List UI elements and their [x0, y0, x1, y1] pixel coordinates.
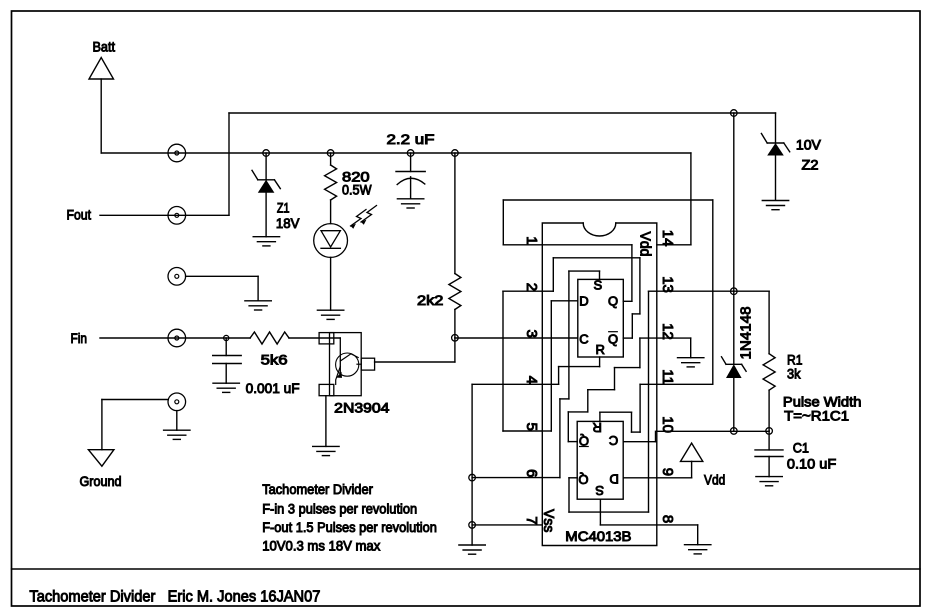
- ground Z1: [253, 236, 279, 238]
- label C1 0.10uF: [787, 440, 836, 472]
- svg-text:8: 8: [659, 515, 676, 523]
- svg-text:C: C: [579, 331, 588, 346]
- label 1N4148: [738, 307, 755, 360]
- connector J5: [168, 393, 186, 411]
- svg-text:R: R: [593, 420, 602, 435]
- wire pin11 to FF2 R: [599, 412, 601, 421]
- wire pin1 external loop: [502, 200, 504, 245]
- pin number 14: [659, 230, 676, 247]
- label R1 3k: [787, 352, 803, 382]
- wire pin9 FF2 D: [623, 477, 657, 479]
- wire pin6 to FF1 S: [542, 477, 560, 479]
- connector J3: [168, 268, 186, 286]
- pin 5 stub: [503, 430, 542, 432]
- svg-text:S: S: [595, 483, 604, 498]
- wire pins 4-6-7 ground column: [471, 384, 473, 545]
- title text: [29, 588, 320, 605]
- svg-text:1N4148: 1N4148: [738, 307, 755, 360]
- ground 2.2uF: [397, 198, 423, 200]
- svg-text:10V0.3 ms 18V max: 10V0.3 ms 18V max: [262, 538, 380, 554]
- ground pins 4-6-7: [459, 544, 485, 546]
- pin number 4: [523, 376, 540, 384]
- node pin6 junction: [469, 474, 476, 481]
- connector J2 Fout: [168, 207, 186, 225]
- pin number 8: [659, 515, 676, 523]
- connector J4 Fin: [168, 329, 186, 347]
- wire pin13 row: [657, 290, 769, 292]
- node pin13-diode: [731, 288, 738, 295]
- label Fout: [67, 207, 92, 223]
- label 820 0.5W: [342, 169, 372, 198]
- pin number 12: [659, 323, 676, 340]
- wire pin12 to ground: [657, 337, 691, 339]
- wire 1N4148 branch vertical: [733, 113, 735, 364]
- wire base: [289, 337, 340, 339]
- wire pin12 to FF2 Qbar: [568, 441, 577, 443]
- wire Batt horizontal rail: [101, 152, 691, 154]
- pin number 13: [659, 276, 676, 293]
- wire Batt vertical: [100, 79, 102, 153]
- pin 2 stub: [503, 290, 542, 292]
- FF1 label Q: [608, 293, 618, 308]
- svg-text:Z2: Z2: [802, 157, 819, 173]
- label 5k6: [261, 352, 288, 368]
- wire pin8 to ground: [657, 524, 698, 526]
- FF2 label C: [609, 433, 618, 448]
- svg-text:2: 2: [523, 283, 540, 291]
- label Z1: [276, 200, 300, 232]
- power symbol Batt: [89, 39, 115, 80]
- svg-text:14: 14: [659, 230, 676, 247]
- FF2 label Qbar: [579, 434, 589, 449]
- wire FF2 S to pin8: [599, 499, 601, 525]
- flip-flop FF1 box: [578, 279, 624, 357]
- pin number 5: [523, 423, 540, 431]
- pin number 2: [523, 283, 540, 291]
- svg-text:Z1: Z1: [277, 200, 290, 216]
- wire J5 to ground symbol below: [176, 411, 178, 431]
- ground J3: [245, 300, 271, 302]
- ground J5: [164, 429, 190, 431]
- capacitor 2.2uF: [396, 153, 425, 199]
- svg-text:Tachometer Divider: Tachometer Divider: [262, 481, 373, 497]
- svg-text:Vdd: Vdd: [704, 472, 725, 488]
- svg-text:6: 6: [523, 469, 540, 477]
- node pin7 junction: [469, 522, 476, 529]
- wire pin1 to FF1 Q: [542, 244, 632, 246]
- svg-text:F-out 1.5 Pulses per revolutio: F-out 1.5 Pulses per revolution: [262, 519, 437, 535]
- wire pin14 Vdd riser: [690, 153, 692, 245]
- label Vdd right: [704, 472, 725, 488]
- zener diode Z2: [761, 113, 789, 200]
- flip-flop FF2 box: [577, 421, 623, 499]
- wire top rail: [229, 112, 776, 114]
- label MC4013B: [565, 528, 631, 544]
- svg-text:R: R: [596, 342, 605, 357]
- pin number 7: [523, 516, 540, 524]
- FF2 label D: [610, 471, 619, 486]
- label 2N3904: [334, 400, 389, 416]
- label 2.2 uF: [387, 131, 435, 147]
- svg-text:12: 12: [659, 323, 676, 340]
- wire J5 to Ground terminal: [102, 399, 168, 401]
- label Fin: [71, 330, 88, 346]
- node Batt-Z1: [263, 150, 270, 157]
- svg-text:Fout: Fout: [67, 207, 92, 223]
- svg-text:F-in 3 pulses per revolution: F-in 3 pulses per revolution: [262, 501, 417, 517]
- diode D2 1N4148: [722, 357, 747, 378]
- svg-text:Q: Q: [608, 293, 618, 308]
- svg-text:Q: Q: [608, 331, 618, 346]
- svg-text:10: 10: [659, 416, 676, 433]
- FF1 label R: [596, 342, 605, 357]
- pin 1 stub: [503, 244, 542, 246]
- FF1 label Qbar: [608, 331, 618, 346]
- wire clock to pin 3: [455, 337, 578, 339]
- ground pin8: [685, 544, 711, 546]
- wire pin5 to FF1 D: [542, 430, 551, 432]
- FF1 label S: [593, 277, 602, 292]
- resistor 5k6: [250, 332, 289, 344]
- svg-text:2.2 uF: 2.2 uF: [387, 131, 435, 147]
- pin number 1: [523, 236, 540, 244]
- zener diode Z1: [252, 153, 280, 237]
- resistor R 820: [325, 153, 337, 224]
- ground Z2: [762, 200, 788, 202]
- connector J1 Batt: [168, 144, 186, 162]
- svg-text:C: C: [609, 433, 618, 448]
- label 0.001 uF: [246, 380, 300, 396]
- svg-text:T=~R1C1: T=~R1C1: [784, 408, 849, 424]
- svg-text:5: 5: [523, 423, 540, 431]
- svg-text:3: 3: [523, 330, 540, 338]
- resistor 2k2: [449, 153, 461, 338]
- svg-text:Fin: Fin: [71, 330, 88, 346]
- title bar separator: [12, 568, 921, 570]
- ground C1: [756, 476, 782, 478]
- FF1 label D: [579, 293, 588, 308]
- wire pin10 row: [657, 430, 769, 432]
- FF2 label R: [593, 420, 602, 435]
- svg-text:3k: 3k: [787, 366, 801, 382]
- capacitor 0.001uF: [213, 338, 242, 383]
- wire FF2 C to pin10 edge: [623, 441, 657, 443]
- svg-text:Ground: Ground: [80, 473, 122, 489]
- label 2k2: [417, 292, 444, 308]
- svg-text:7: 7: [523, 516, 540, 524]
- FF2 label S: [595, 483, 604, 498]
- svg-text:S: S: [593, 277, 602, 292]
- svg-text:Vss: Vss: [540, 509, 557, 533]
- pin number 11: [659, 369, 676, 385]
- wire pin11 row: [657, 383, 713, 385]
- capacitor C1: [755, 431, 783, 477]
- pin 4 stub: [472, 383, 542, 385]
- ground LED: [317, 309, 343, 311]
- node pin10-R1C1: [766, 428, 773, 435]
- wire pin2 to FF1 Qbar: [542, 290, 553, 292]
- svg-text:0.10 uF: 0.10 uF: [787, 456, 836, 472]
- wire J3 to ground: [186, 275, 259, 277]
- transistor Q1 2N3904: [319, 333, 375, 396]
- LED light arrows: [351, 206, 377, 229]
- power symbol Ground: [80, 450, 122, 489]
- pin number 10: [659, 416, 676, 433]
- label Vdd inside: [637, 232, 654, 257]
- svg-text:4: 4: [523, 376, 540, 384]
- FF1 label C: [579, 331, 588, 346]
- pin number 9: [659, 468, 676, 476]
- svg-text:0.5W: 0.5W: [342, 182, 372, 198]
- wire emitter to ground: [325, 396, 327, 447]
- ground emitter: [313, 445, 339, 447]
- svg-text:0.001 uF: 0.001 uF: [246, 380, 300, 396]
- svg-text:D: D: [579, 293, 588, 308]
- node Batt-2k2: [452, 150, 459, 157]
- svg-text:Tachometer Divider Eric M. J: Tachometer Divider Eric M. Jones 16JAN07: [29, 588, 320, 605]
- pin 7 stub Vss: [472, 524, 542, 526]
- wire pin4 to FF1 R: [542, 383, 558, 385]
- svg-text:Vdd: Vdd: [637, 232, 654, 257]
- node collector junction: [452, 335, 459, 342]
- svg-text:18V: 18V: [276, 215, 300, 231]
- label Vss inside: [540, 509, 557, 533]
- LED D1: [314, 224, 348, 311]
- wire pin2 to pin5 external: [502, 291, 504, 431]
- resistor R1 3k: [763, 291, 775, 431]
- node Batt-820: [327, 150, 334, 157]
- wire collector riser: [454, 338, 456, 362]
- svg-text:Batt: Batt: [93, 39, 116, 55]
- label Pulse Width: [783, 394, 862, 424]
- wire Fout riser: [228, 113, 230, 215]
- annotation text block: [262, 481, 437, 554]
- svg-text:10V: 10V: [796, 137, 822, 153]
- label 10V Z2: [796, 137, 822, 173]
- node Batt-C2.2: [407, 150, 414, 157]
- svg-text:2k2: 2k2: [417, 292, 444, 308]
- svg-text:11: 11: [659, 369, 676, 385]
- ground pin12: [678, 357, 704, 359]
- op-amp U1 MC4013B outer package: [542, 223, 657, 546]
- svg-text:5k6: 5k6: [261, 352, 288, 368]
- pin 6 stub: [472, 477, 542, 479]
- node pin10-diode: [731, 428, 738, 435]
- svg-text:2N3904: 2N3904: [334, 400, 389, 416]
- pin number 6: [523, 469, 540, 477]
- wire pin13 to FF2 Q: [569, 477, 577, 479]
- svg-text:Q: Q: [578, 472, 588, 487]
- svg-text:C1: C1: [793, 440, 809, 456]
- svg-text:MC4013B: MC4013B: [565, 528, 631, 544]
- svg-text:D: D: [610, 471, 619, 486]
- node top rail: [731, 110, 738, 117]
- wire Fin: [100, 337, 250, 339]
- svg-text:9: 9: [659, 468, 676, 476]
- power symbol Vdd at pin9: [657, 443, 703, 478]
- ground 0.001uF: [213, 382, 239, 384]
- pin number 3: [523, 330, 540, 338]
- wire Fout: [100, 214, 229, 216]
- FF2 label Q: [578, 472, 588, 487]
- svg-text:1: 1: [523, 236, 540, 244]
- svg-text:13: 13: [659, 276, 676, 293]
- node Fin-cap: [224, 335, 229, 340]
